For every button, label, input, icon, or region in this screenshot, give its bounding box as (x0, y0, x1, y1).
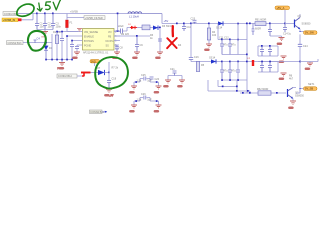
svg-text:47u: 47u (232, 44, 237, 47)
capacitor C13 (268, 24, 272, 37)
junction node x209 (208, 23, 210, 25)
svg-text:VO: VO (108, 31, 112, 34)
transistor Q2 (288, 88, 305, 102)
svg-text:CONN2:B11: CONN2:B11 (90, 111, 104, 114)
capacitor C9 (135, 36, 143, 52)
orange net label +5V_OUT top (275, 6, 290, 10)
capacitor on x77 (75, 47, 79, 49)
svg-text:GND: GND (164, 86, 169, 88)
capacitor C10 (182, 24, 192, 32)
fuse F1 highlighted red (66, 18, 73, 32)
capacitor C11 (220, 40, 224, 55)
resistor R1 (52, 31, 62, 44)
capacitor C8 under pin4 (115, 45, 123, 52)
junction node x177 (176, 23, 178, 25)
junction node x300 y62 (299, 61, 301, 63)
resistor R4 vertical (207, 24, 216, 45)
red highlighted wire segment (77, 75, 82, 77)
svg-text:C4: C4 (37, 37, 41, 41)
svg-text:4k7: 4k7 (289, 78, 294, 81)
middle chain rail (191, 61, 247, 63)
TVS diode D1 (44, 42, 53, 60)
junction node x45 (44, 13, 46, 15)
svg-text:CONN2:B13: CONN2:B13 (8, 42, 23, 45)
junction node VO (117, 30, 119, 32)
svg-text:22uF: 22uF (118, 25, 124, 28)
capacitor C5 on x62 (60, 39, 64, 41)
ground RC2 right (154, 105, 162, 113)
svg-text:5V_SB: 5V_SB (305, 87, 313, 91)
svg-text:C25: C25 (141, 74, 146, 77)
capacitor C3 (51, 14, 62, 30)
svg-text:SS14: SS14 (209, 57, 216, 60)
junction node x277 (284, 23, 286, 25)
ground bus under caps (37, 30, 53, 32)
svg-text:L1 10uH: L1 10uH (129, 15, 139, 19)
capacitor C20 small (150, 77, 160, 81)
junction node x37 (36, 13, 38, 15)
junction node x57 top (56, 31, 58, 33)
svg-text:+5V: +5V (164, 19, 169, 23)
bottom bus stage A (222, 24, 247, 55)
ferrite bead FB1 (255, 18, 266, 30)
capacitor C15 x253 (252, 24, 255, 36)
svg-text:1uF: 1uF (147, 98, 152, 101)
svg-text:C16: C16 (194, 56, 199, 59)
svg-text:GND: GND (133, 58, 138, 60)
ground symbol small above IC inputs (77, 29, 82, 32)
svg-text:C19: C19 (112, 78, 117, 81)
svg-text:C26: C26 (141, 93, 146, 96)
junction node x53 (52, 13, 54, 15)
IC left pin wires (79, 32, 83, 46)
svg-text:+5VSB: +5VSB (70, 11, 78, 14)
long vertical x247 (246, 24, 248, 94)
parallel caps group right (x262,270) (258, 45, 278, 56)
junction node x62 top (61, 31, 63, 33)
junction nodes middle rail (221, 61, 223, 63)
second rail (162, 23, 285, 25)
junction nodes mid row (159, 27, 161, 29)
green annotation ellipse 1 (17, 4, 34, 16)
svg-text:GND: GND (130, 92, 135, 94)
net label CONN right of fuse (84, 16, 105, 20)
svg-text:NC/PG: NC/PG (106, 40, 114, 43)
svg-text:GND: GND (178, 86, 183, 88)
svg-text:GND: GND (154, 92, 159, 94)
junction node rail x117.7 (117, 13, 119, 15)
subrail stage A (218, 24, 247, 40)
diode D2 highlighted red (128, 24, 137, 30)
diode D5 on rail (216, 21, 223, 29)
green annotation big ellipse (95, 57, 128, 88)
svg-text:1.5k: 1.5k (137, 98, 142, 101)
series capacitor C7 on VO row (114, 25, 127, 33)
rail corner to second rail (142, 14, 162, 24)
vertical x300 continues (299, 62, 301, 94)
wire from mid diode down (159, 29, 161, 53)
svg-text:C14 1u: C14 1u (283, 33, 292, 36)
svg-text:FB1 600R: FB1 600R (255, 18, 266, 21)
regulator IC U1 (83, 29, 118, 55)
svg-text:GND: GND (130, 111, 135, 113)
red component mid (252, 60, 254, 66)
junction node x250 (249, 23, 251, 25)
inductor L1 (128, 12, 142, 19)
junction node x247 rail (246, 23, 248, 25)
ground RC1 right (154, 86, 162, 94)
ground under R4 (205, 44, 213, 52)
capacitor C4 on conn wire (34, 37, 41, 44)
junction nodes subrail (221, 39, 223, 41)
junction node x112 (108, 72, 110, 74)
green annotation 5V text (46, 0, 61, 10)
junction node x191 (190, 23, 192, 25)
svg-text:5V_SW: 5V_SW (305, 31, 314, 35)
wire rail to fuse F1 (67, 14, 84, 18)
svg-text:CONN2:B12: CONN2:B12 (58, 75, 73, 78)
svg-text:GND: GND (156, 58, 161, 60)
routing bus lower (208, 80, 250, 93)
junction x277 bottom (276, 92, 278, 94)
svg-text:FB: FB (108, 36, 112, 39)
orange net label right mid (300, 31, 318, 35)
orange net label above diode (90, 60, 100, 67)
RC verticals into IC (52, 32, 79, 60)
transistor Q1 (285, 14, 311, 32)
long vertical connector x191 (190, 24, 192, 62)
red annotation X deleted part (167, 26, 177, 48)
junction node x72 (71, 40, 73, 42)
vertical x300 down (299, 34, 301, 61)
junction nodes on bus (45, 59, 47, 61)
svg-text:C20: C20 (155, 78, 160, 81)
resistor R5 vertical on middle rail (196, 62, 205, 72)
svg-text:PGND: PGND (58, 68, 65, 70)
ground under big ellipse (105, 89, 114, 97)
green annotation arrow (37, 3, 42, 11)
svg-text:AP2114H-3.3TRG1 U1: AP2114H-3.3TRG1 U1 (83, 51, 109, 54)
diode D7 (97, 67, 109, 75)
svg-text:R7 2k: R7 2k (112, 67, 119, 70)
connector label CONN2 mid-left (7, 41, 24, 45)
RC row 1 bottom center (134, 74, 159, 86)
svg-text:47u: 47u (232, 70, 237, 73)
connector label CONN2 top-left (3, 12, 19, 16)
svg-text:+5VSB_IN: +5VSB_IN (3, 18, 15, 22)
svg-text:SS: SS (106, 45, 110, 48)
capacitor on vertical (158, 39, 162, 41)
svg-text:VIN_SENSE: VIN_SENSE (84, 31, 98, 34)
svg-text:+5VSB_FILTER: +5VSB_FILTER (85, 17, 103, 20)
junction node C9 top (136, 35, 138, 37)
capacitor C1 (35, 14, 44, 30)
ground C21 right (178, 80, 186, 88)
svg-text:NET1: NET1 (308, 83, 315, 86)
capacitor C18 (228, 62, 232, 81)
svg-text:C11 C12: C11 C12 (219, 37, 229, 40)
wire from +5VSB label (22, 14, 34, 20)
capacitor C12 (228, 40, 232, 55)
wire fuse to IC VIN (67, 31, 79, 33)
wire upper mid row (127, 27, 161, 29)
svg-text:5VD: 5VD (91, 60, 96, 63)
vertical VO to 5V rail (117, 14, 119, 32)
wire orange label to rail (284, 10, 286, 24)
svg-text:GND: GND (279, 79, 284, 81)
svg-text:FB2 600R: FB2 600R (257, 88, 268, 91)
ground bus below RC (46, 60, 72, 63)
svg-text:100: 100 (212, 34, 217, 37)
wire to diode D7 (91, 72, 99, 74)
ground under C9 (133, 52, 141, 60)
junction node x270 (269, 23, 271, 25)
ground under Q2 (289, 101, 297, 110)
svg-text:+5V_A: +5V_A (277, 6, 285, 10)
svg-text:C23: C23 (191, 17, 196, 20)
RC row 2 bottom center (134, 93, 159, 105)
capacitor C27 third (236, 70, 240, 72)
net label GND_D with red segment (57, 74, 77, 78)
bottom chain rail (240, 92, 286, 94)
ground symbol under x77 cap (73, 52, 81, 59)
wire from CONN2 mid label (23, 42, 52, 44)
capacitor C2 (43, 14, 52, 30)
capacitor C6 on x72 (70, 45, 74, 47)
svg-text:SS8050: SS8050 (295, 95, 305, 98)
svg-text:C24: C24 (303, 45, 308, 48)
ground left column x277 area (279, 56, 287, 64)
wire x300 to bottom rail (296, 92, 300, 94)
ground under C8 (113, 52, 121, 60)
capacitor C17 (220, 62, 224, 81)
svg-text:R2 1k5: R2 1k5 (121, 33, 130, 36)
svg-text:47u: 47u (224, 44, 229, 47)
junction node x184 (183, 23, 185, 25)
diode D6 on middle rail (209, 57, 216, 64)
capacitor C19 (107, 81, 111, 90)
ground x310 (305, 63, 313, 71)
svg-text:1uF: 1uF (147, 79, 152, 82)
green annotation ellipse 2 (28, 31, 46, 51)
svg-text:ENABLE: ENABLE (84, 36, 94, 39)
svg-text:PGND: PGND (84, 45, 91, 48)
svg-text:600R: 600R (255, 27, 261, 30)
series capacitor C16 on vertical x191 (189, 57, 193, 59)
ground symbol under caps (42, 32, 48, 35)
IC right pin wires (114, 32, 120, 46)
ground C21 left (164, 80, 172, 88)
svg-text:GND_5V: GND_5V (105, 95, 114, 97)
svg-text:BYPASS: BYPASS (84, 40, 94, 43)
wire from CONN2 label to 5V rail (18, 13, 34, 15)
svg-text:GND: GND (289, 108, 294, 110)
svg-text:SS14: SS14 (216, 26, 223, 29)
capacitor C14 (283, 24, 292, 36)
junction node x67 (66, 35, 68, 37)
ground under vertical (156, 52, 164, 60)
svg-text:GND: GND (305, 69, 310, 71)
wire right edge (300, 59, 318, 63)
vertical through big ellipse (108, 62, 110, 81)
ground symbol main left (58, 63, 66, 71)
ground under C13 (270, 36, 285, 45)
svg-text:C21: C21 (170, 68, 175, 71)
bottom label box (90, 110, 108, 114)
svg-text:GND: GND (154, 111, 159, 113)
svg-text:47u: 47u (224, 70, 229, 73)
svg-text:1.5k: 1.5k (137, 79, 142, 82)
bottom bus middle (222, 62, 247, 81)
ground RC2 left (130, 105, 138, 113)
series capacitor C24 on vertical (298, 44, 302, 46)
ground x277 lower (279, 73, 287, 81)
capacitor C21 bridge (168, 68, 182, 80)
capacitor C23 above rail (193, 20, 197, 23)
svg-text:100n: 100n (56, 25, 62, 28)
svg-text:GND: GND (277, 43, 282, 45)
ferrite bead FB2 (257, 88, 271, 95)
diode D3 (153, 25, 173, 30)
svg-text:GND: GND (205, 50, 210, 52)
ground RC1 left (130, 86, 138, 94)
svg-text:D3 SS34: D3 SS34 (162, 25, 173, 28)
5V rail (33, 13, 162, 15)
net label +5V_STANDBY highlighted (2, 18, 22, 22)
svg-text:GND: GND (73, 57, 78, 59)
component box mid (142, 25, 150, 30)
orange net label bottom right (300, 87, 318, 93)
feedback wire row (114, 35, 150, 37)
junction nodes bottom rail (242, 92, 244, 94)
svg-text:SS8050: SS8050 (302, 23, 312, 26)
middle right caps group (258, 61, 278, 72)
